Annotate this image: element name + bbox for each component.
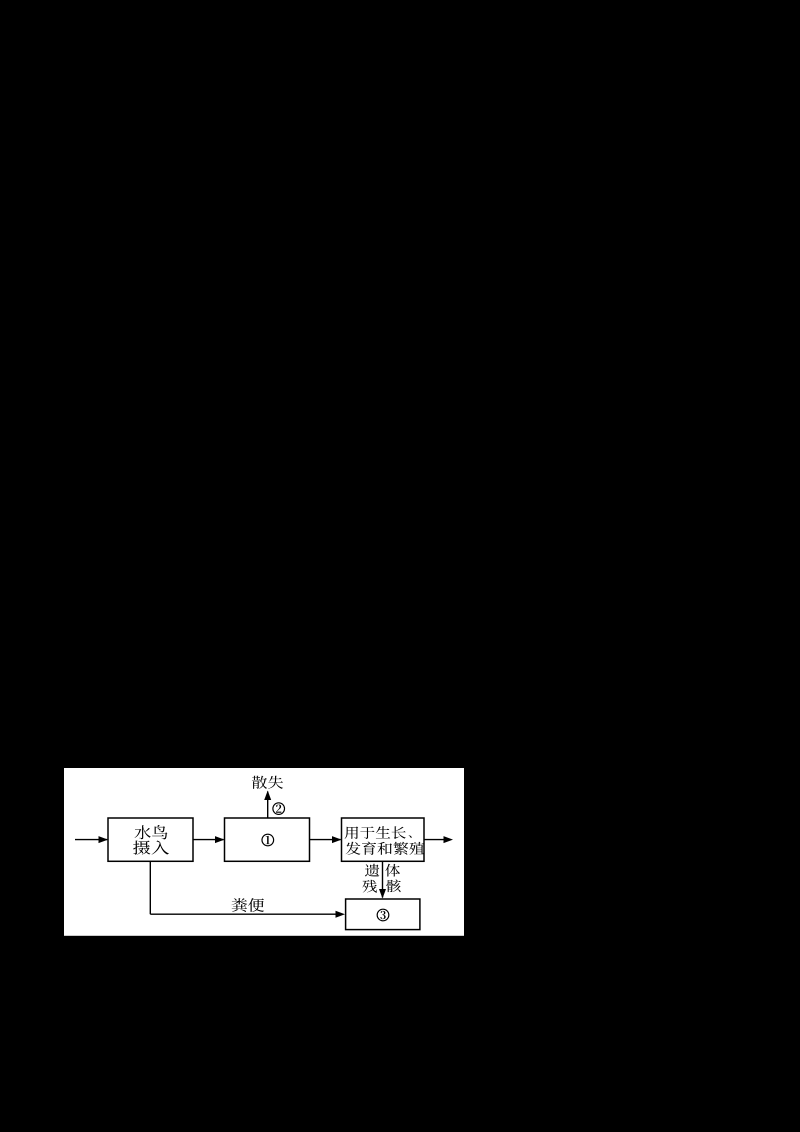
- label: 粪便 (feces): [232, 898, 265, 912]
- box: 用于生长、发育和繁殖: [342, 818, 425, 861]
- label: 用于生长 (line 1): [345, 826, 406, 839]
- wire: upward arrow ① to 散失: [267, 792, 269, 819]
- label: 发育和繁殖 (line 2): [346, 842, 425, 855]
- box: ③ (to decomposers): [346, 899, 420, 930]
- label: 残: [362, 880, 377, 893]
- wire: downward arrow 遗体残骸 to ③: [382, 861, 384, 897]
- label: circled ②: [273, 803, 285, 815]
- box: 水鸟摄入 (water-bird intake): [108, 818, 193, 861]
- label: 水鸟 (line 1): [135, 825, 168, 839]
- wire: 粪便 path from 水鸟摄入 down then right to ③: [149, 861, 151, 914]
- label: 摄入 (line 2): [133, 841, 169, 855]
- wire: input arrow into 水鸟摄入: [75, 839, 107, 841]
- label: 骸: [386, 879, 401, 892]
- wire: 水鸟摄入 to ①: [193, 839, 224, 841]
- label: circled ① in box: [262, 834, 274, 846]
- label: 散失 (heat loss): [252, 776, 283, 789]
- label: circled ③ in box: [377, 909, 389, 921]
- box: ① (assimilated energy): [225, 818, 310, 861]
- label: 体: [385, 864, 400, 877]
- label: ideographic comma: [409, 835, 412, 838]
- white diagram panel: [64, 768, 464, 936]
- wire: ① to 用于生长 box: [310, 839, 341, 841]
- label: 遗: [365, 864, 379, 877]
- wire: output arrow from 用于生长 box: [424, 839, 444, 841]
